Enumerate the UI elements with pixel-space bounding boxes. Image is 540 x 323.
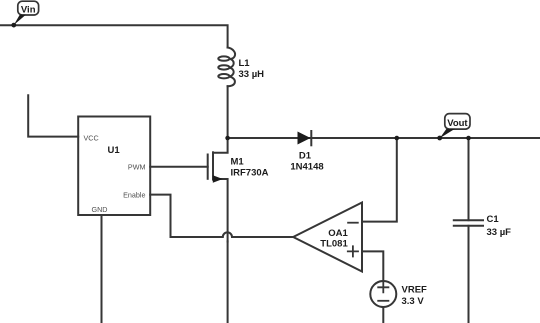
diode D1 arrow [298, 132, 311, 145]
inductor L1 [218, 48, 235, 87]
capacitor C1 [454, 138, 483, 323]
svg-text:IRF730A: IRF730A [231, 168, 269, 179]
svg-text:U1: U1 [108, 145, 121, 156]
wire VREF bottom [382, 307, 384, 323]
wire source down to bottom [227, 242, 229, 323]
wire op-amp output with hop to Enable [150, 195, 293, 237]
tag Vin box [18, 1, 39, 15]
svg-text:33 µH: 33 µH [239, 69, 265, 80]
svg-text:C1: C1 [487, 214, 500, 225]
junction node C1 [466, 136, 471, 141]
svg-text:GND: GND [92, 205, 108, 214]
svg-text:VCC: VCC [84, 134, 99, 143]
tag Vout pointer [440, 129, 455, 138]
wire output rail [228, 137, 540, 139]
svg-text:1N4148: 1N4148 [290, 161, 323, 172]
transistor M1 [208, 138, 228, 232]
wire VCC dangling lead [28, 95, 78, 136]
junction node feedback [395, 136, 400, 141]
VREF plus symbol [378, 282, 388, 292]
svg-text:PWM: PWM [128, 162, 146, 171]
svg-text:Enable: Enable [123, 190, 145, 199]
VREF minus symbol [378, 300, 388, 302]
wire op-amp minus input to output rail [362, 138, 397, 222]
svg-text:L1: L1 [239, 58, 251, 69]
transistor M1 source arrow [213, 175, 223, 182]
svg-text:VREF: VREF [402, 284, 428, 295]
svg-text:TL081: TL081 [320, 238, 348, 249]
wire op-amp plus input to VREF [362, 251, 383, 281]
svg-text:3.3 V: 3.3 V [402, 296, 425, 307]
svg-text:Vout: Vout [447, 118, 468, 129]
source VREF [370, 281, 396, 307]
op-amp minus symbol [348, 222, 358, 224]
op-amp OA1 [293, 203, 362, 272]
tag Vin pointer [14, 15, 26, 25]
wire GND down [101, 215, 103, 323]
chip U1 [78, 117, 150, 216]
svg-text:M1: M1 [231, 157, 245, 168]
svg-text:Vin: Vin [21, 4, 36, 15]
tag Vout box [445, 114, 470, 130]
op-amp plus symbol [348, 246, 358, 256]
svg-text:33 µF: 33 µF [487, 227, 512, 238]
junction node drain [225, 136, 230, 141]
svg-text:D1: D1 [299, 151, 312, 162]
wire inductor to drain node [227, 86, 229, 138]
diode D1 cathode bar [310, 131, 312, 145]
wire Vin top rail to inductor [0, 25, 228, 47]
wire PWM to gate [150, 166, 208, 168]
